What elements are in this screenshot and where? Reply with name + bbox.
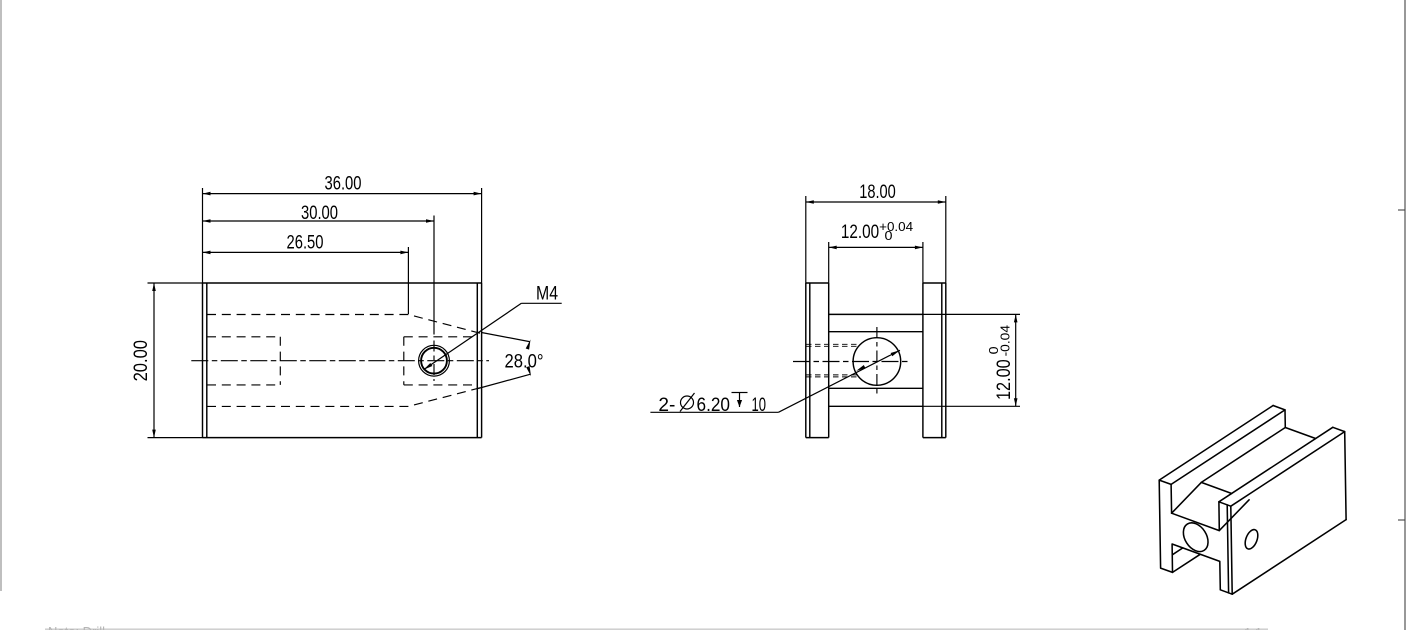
svg-text:30.00: 30.00	[301, 202, 338, 224]
svg-text:2-: 2-	[658, 394, 675, 416]
iso left flange top outer edge	[1159, 406, 1273, 481]
svg-text:20.00: 20.00	[130, 340, 152, 382]
svg-text:Note: Drill: Note: Drill	[48, 624, 105, 630]
iso bottom notch inner edges	[1173, 554, 1201, 572]
left page border	[0, 0, 2, 591]
iso big face top edge	[1231, 432, 1345, 507]
svg-text:6.20: 6.20	[697, 394, 731, 416]
side view taper end edges	[829, 331, 923, 333]
svg-text:26.50: 26.50	[287, 231, 324, 253]
dim 26.50	[203, 231, 409, 314]
svg-text:M4: M4	[536, 283, 558, 305]
front view outline	[203, 283, 482, 438]
side view outline	[806, 283, 1020, 438]
front view center line	[191, 360, 489, 362]
M4 leader	[424, 283, 562, 370]
svg-text:28.0°: 28.0°	[505, 351, 544, 373]
dim 36.00	[203, 172, 482, 283]
iso slot floor left edge	[1201, 428, 1285, 483]
svg-text:10: 10	[752, 394, 767, 416]
front hidden right counterbore	[404, 337, 478, 385]
iso far end cap left flange	[1273, 406, 1316, 439]
iso end face hole ellipse	[1178, 518, 1213, 556]
M4 tapped hole circles	[421, 348, 447, 374]
front hidden slot floor bottom	[207, 388, 481, 407]
iso big face bottom edge	[1232, 520, 1346, 595]
svg-text:0: 0	[885, 228, 893, 243]
iso view part	[1159, 406, 1346, 595]
svg-text:36.00: 36.00	[325, 172, 362, 194]
front hidden slot floor top	[207, 315, 481, 334]
side view hole circle	[853, 338, 901, 386]
angle dim 28.0	[478, 333, 544, 389]
iso slot taper right edge	[1219, 500, 1249, 531]
iso left flange top inner edge	[1171, 410, 1285, 485]
dim 18.00	[806, 181, 946, 283]
side view center lines	[876, 327, 878, 394]
dim 12.00 0/-0.04 vertical	[986, 314, 1018, 406]
right page border	[1404, 0, 1406, 630]
svg-text:12.00: 12.00	[841, 221, 879, 243]
iso near corner chamfer line	[1227, 505, 1228, 593]
bottom clipped title block top line	[45, 628, 1268, 630]
iso end face H outline	[1159, 480, 1232, 594]
iso right flange top inner edge	[1219, 427, 1333, 502]
side hidden M4 thread lines	[806, 344, 858, 377]
front hidden left counterbore	[207, 337, 280, 385]
svg-text:18.00: 18.00	[859, 181, 896, 203]
svg-text:12.00: 12.00	[993, 359, 1015, 400]
dim 12.00 +0.04/0	[829, 219, 923, 283]
svg-text:1:1: 1:1	[1244, 625, 1262, 630]
leader 2-dia6.20 depth 10	[650, 350, 900, 416]
iso slot taper left edge + top edge	[1172, 482, 1232, 513]
svg-text:-0.04: -0.04	[997, 325, 1012, 356]
dim 30.00	[203, 202, 435, 335]
iso M4 hole ellipse	[1243, 528, 1261, 551]
iso far end cap right flange	[1333, 427, 1346, 519]
dim 20.00	[130, 283, 202, 438]
M4 hole vertical center line	[433, 341, 435, 382]
